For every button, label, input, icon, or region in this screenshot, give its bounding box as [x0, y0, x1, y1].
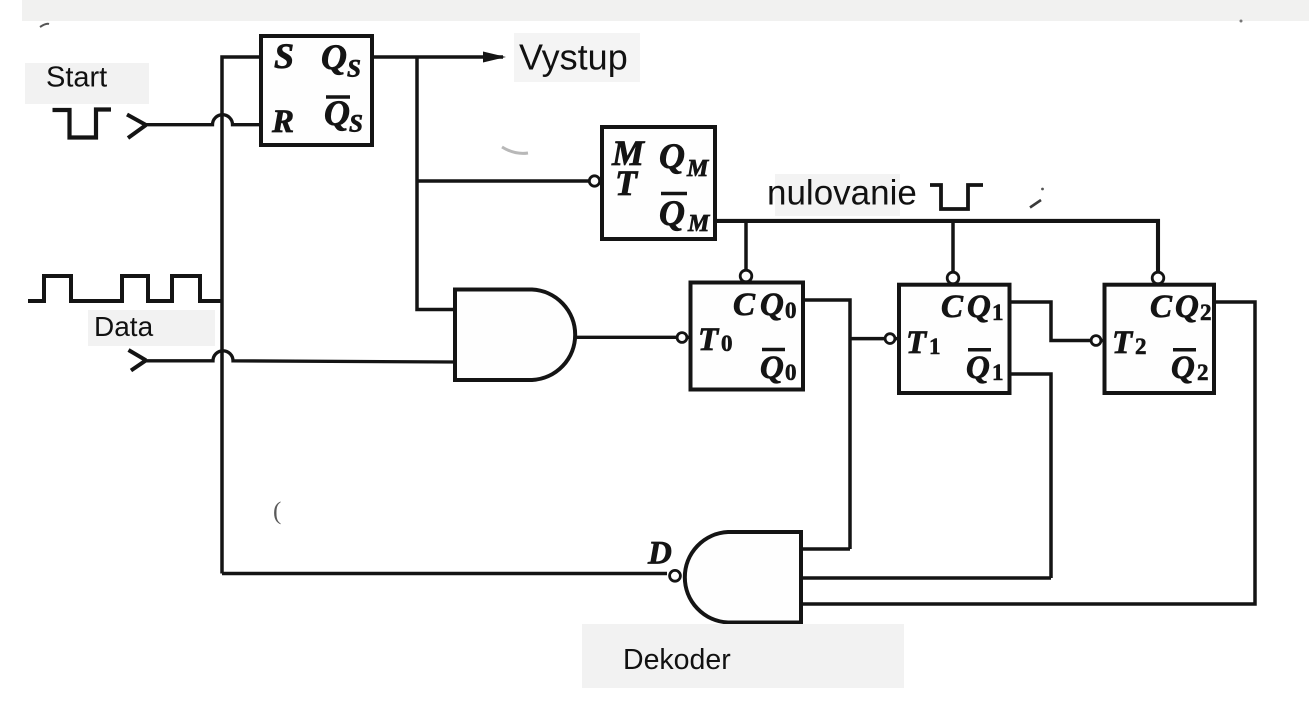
svg-text:2: 2 [1135, 334, 1147, 359]
svg-text:Q: Q [659, 136, 685, 176]
svg-text:M: M [687, 211, 711, 237]
label Dekoder [623, 644, 731, 676]
wire decoder middle input [801, 576, 1051, 580]
svg-text:Dekoder: Dekoder [623, 644, 731, 676]
bubble decoder D output [670, 570, 681, 581]
flip-flop U2 (MT) box [602, 127, 715, 239]
wire branch to MT input [417, 179, 594, 183]
label background Vystup [514, 33, 640, 82]
pin label Q̄0 with overbar [760, 350, 797, 387]
wire Data to AND lower input with hop [144, 351, 455, 362]
svg-text:D: D [647, 536, 672, 572]
wire AND output to T0 input [577, 336, 691, 339]
svg-text:S: S [274, 36, 294, 76]
wire decoder top input [801, 547, 850, 551]
svg-text:Vystup: Vystup [519, 37, 628, 78]
Start pulse symbol [53, 110, 112, 138]
svg-text:T: T [1112, 325, 1134, 361]
pin label Q̄m with overbar [659, 193, 711, 237]
pin label Q̄s with overbar [324, 93, 363, 138]
svg-text:S: S [347, 56, 361, 83]
pin label Qs [321, 37, 361, 83]
label background Data [88, 310, 215, 346]
svg-text:Q: Q [659, 193, 685, 233]
svg-text:Start: Start [46, 62, 107, 94]
label nulovanie [767, 174, 917, 213]
bubble T1 T-input [885, 334, 895, 344]
svg-text:T: T [615, 163, 639, 203]
svg-text:R: R [271, 104, 294, 140]
pin label T2 [1112, 325, 1147, 361]
svg-text:S: S [349, 111, 363, 138]
pin label C [1150, 289, 1173, 325]
Start input chevron [127, 115, 146, 139]
wire vertical from Qs junction down to AND gate top input [417, 57, 455, 310]
bubble C input T2 [1152, 272, 1164, 284]
svg-text:1: 1 [929, 334, 941, 359]
svg-text:C: C [941, 289, 964, 325]
svg-text:nulovanie: nulovanie [767, 174, 917, 213]
svg-text:M: M [686, 156, 710, 182]
svg-text:Q: Q [760, 287, 784, 323]
bubble T2 T-input [1091, 336, 1101, 346]
pin label Q̄2 with overbar [1171, 350, 1209, 386]
wire Start to R input with hop over vertical [144, 115, 261, 125]
svg-text:C: C [1150, 289, 1173, 325]
wire Q2 output down to decoder bottom input [801, 302, 1255, 604]
svg-text:2: 2 [1200, 300, 1212, 325]
flip-flop U3 (T0) box [691, 283, 804, 390]
wire S-input vertical from decoder D output up to S pin [222, 57, 667, 574]
svg-text:C: C [733, 287, 756, 323]
arrowhead Vystup [483, 52, 506, 63]
svg-text:(: ( [273, 498, 281, 525]
pin label T [615, 163, 639, 203]
svg-text:Q: Q [760, 350, 784, 386]
nulovanie pulse symbol [930, 185, 983, 209]
bubble T0 T-input [677, 333, 687, 343]
label background nulovanie [775, 174, 900, 216]
pin label C [733, 287, 756, 323]
svg-text:T: T [906, 325, 928, 361]
label D [647, 536, 672, 572]
svg-text:2: 2 [1197, 360, 1209, 385]
pin label M [611, 133, 646, 173]
pin label Q1 [967, 289, 1004, 325]
AND gate G1 [455, 290, 575, 381]
wire drop to T0 C input [744, 221, 748, 271]
svg-text:0: 0 [785, 360, 797, 385]
pin label R [271, 104, 294, 140]
label background Start [25, 63, 149, 104]
svg-text:Q: Q [321, 37, 347, 77]
svg-text:Q: Q [1175, 289, 1199, 325]
svg-text:Q: Q [1171, 350, 1195, 386]
wire Q̄1 output down to decoder middle input [1010, 374, 1052, 578]
svg-text:Q: Q [324, 93, 350, 133]
wire Q1 output to T2 input [1010, 302, 1105, 341]
svg-text:0: 0 [785, 298, 797, 323]
svg-text:0: 0 [721, 331, 733, 356]
bubble C input T1 [947, 272, 959, 284]
svg-text:T: T [698, 322, 720, 358]
label background Dekoder [582, 624, 904, 688]
Data clock waveform [28, 276, 222, 301]
pin label C [941, 289, 964, 325]
pin label Q0 [760, 287, 797, 323]
scan speck marks [502, 20, 1243, 154]
pin label Q2 [1175, 289, 1212, 325]
pin label Q̄1 with overbar [966, 350, 1004, 386]
wire nulovanie bus from Q̄m output [715, 221, 1158, 272]
label Vystup [519, 37, 628, 78]
top scan band [22, 0, 1309, 21]
wire drop to T1 C input [951, 221, 955, 272]
Data input chevron [129, 350, 147, 371]
flip-flop U5 (T2) box [1105, 285, 1215, 393]
svg-text:Q: Q [966, 350, 990, 386]
label Data [94, 311, 154, 342]
NAND decoder gate G2 (mirrored) [685, 532, 801, 623]
pin label T1 [906, 325, 941, 361]
svg-text:1: 1 [992, 360, 1004, 385]
svg-text:1: 1 [992, 300, 1004, 325]
pin label T0 [698, 322, 733, 358]
pin label Qm [659, 136, 710, 182]
wire Qs output to Vystup arrow [372, 55, 503, 59]
bubble C input T0 [740, 270, 752, 282]
flip-flop U4 (T1) box [899, 285, 1010, 393]
flip-flop U1 (SR) box [261, 36, 372, 145]
pin label S [274, 36, 294, 76]
svg-text:Data: Data [94, 311, 154, 342]
svg-text:Q: Q [967, 289, 991, 325]
label Start [46, 62, 107, 94]
bubble MT T-input [589, 176, 599, 186]
wire Q0 output to T1 input and decoder [803, 300, 899, 549]
